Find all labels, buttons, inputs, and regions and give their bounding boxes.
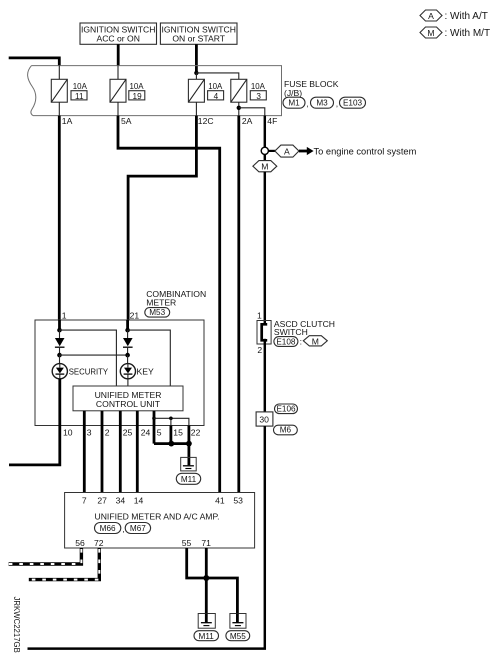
svg-text:4F: 4F — [267, 116, 277, 126]
junction dot: 2A/4F split — [237, 106, 241, 110]
connector M1 — [283, 97, 309, 108]
svg-text:M66: M66 — [100, 524, 116, 533]
wire: terminal 2A to unified meter amp pin 53 — [237, 116, 240, 493]
security indicator LED — [52, 355, 109, 379]
wire: pin 15 below meter — [169, 426, 172, 444]
diode (key branch) — [123, 330, 133, 355]
svg-text:ON or START: ON or START — [172, 34, 225, 44]
wire: amp pin 71 to ground M11 — [205, 548, 208, 614]
wire: amp pin 55 to ground junction — [187, 548, 207, 578]
wire: pin 1 into meter — [58, 320, 61, 330]
svg-text:M: M — [312, 336, 319, 346]
branch hexagon A : to engine control system — [268, 145, 416, 157]
connector M66 — [95, 523, 125, 534]
meter pin labels 10 3 2 25 24 5 15 22 — [63, 428, 201, 438]
svg-text:E103: E103 — [343, 99, 363, 108]
svg-text:1A: 1A — [62, 116, 73, 126]
svg-text:27: 27 — [97, 496, 107, 506]
svg-text:E108: E108 — [276, 337, 296, 346]
wire: amp pin 56 shielded line to left — [9, 548, 82, 564]
wire: battery feed top-left to fuse 1A — [9, 58, 60, 66]
svg-text:25: 25 — [123, 428, 133, 438]
junction circle on 4F wire — [261, 147, 268, 154]
FUSE BLOCK (J/B) label — [284, 79, 339, 98]
svg-text:METER: METER — [146, 297, 176, 307]
svg-text:19: 19 — [133, 92, 143, 101]
svg-text:SECURITY: SECURITY — [69, 367, 109, 376]
svg-text:21: 21 — [130, 310, 140, 320]
svg-text:3: 3 — [256, 92, 261, 101]
wire: pin 10 to left page edge — [9, 426, 60, 465]
svg-text:34: 34 — [116, 496, 126, 506]
unified meter and A/C amp box — [65, 493, 255, 549]
svg-text:KEY: KEY — [137, 366, 154, 376]
connector E103 — [340, 97, 366, 108]
svg-text:15: 15 — [173, 428, 183, 438]
svg-text:A: A — [284, 147, 290, 157]
wire: ignition switch ON/START feed into fuse block — [195, 44, 198, 73]
svg-text:3: 3 — [87, 428, 92, 438]
legend hexagon M : With M/T — [420, 27, 490, 39]
svg-text:71: 71 — [201, 538, 211, 548]
svg-text:11: 11 — [75, 92, 84, 101]
wire: control unit to pin 25 — [119, 411, 122, 426]
svg-text:: With M/T: : With M/T — [445, 28, 490, 39]
svg-text:1: 1 — [257, 310, 262, 320]
svg-text:ACC or ON: ACC or ON — [96, 34, 139, 44]
wire: connector 30 down and across page bottom — [28, 426, 265, 648]
junction dot pin 15 branch — [169, 417, 173, 421]
wire: pin 15 down — [170, 418, 172, 425]
wire: branch to ground M55 — [206, 578, 237, 614]
ground symbol (M55) — [230, 614, 246, 629]
ignition switch ON or START label box — [160, 23, 237, 44]
svg-text:4: 4 — [214, 92, 219, 101]
ground symbol (M11) — [198, 614, 215, 629]
svg-text:10A: 10A — [251, 82, 266, 91]
junction dot ground bus 1 — [168, 441, 174, 447]
svg-text:M11: M11 — [181, 475, 197, 484]
wire: link security/key branches — [60, 354, 128, 356]
svg-text:SWITCH: SWITCH — [274, 327, 308, 337]
svg-text:56: 56 — [75, 538, 85, 548]
wire: joined ground bus 5/15/22 — [154, 442, 189, 445]
unified meter control unit box — [73, 386, 183, 411]
svg-text:22: 22 — [191, 428, 201, 438]
svg-text:M55: M55 — [230, 632, 246, 641]
junction dot pin 5 branch — [152, 417, 156, 421]
wire: control unit to pin 24 — [136, 411, 139, 426]
connector M55 (bottom ground) — [226, 631, 250, 641]
wire: ground branch across pins 5/15/22 — [154, 418, 189, 425]
legend hexagon A : With A/T — [420, 10, 488, 22]
wire: terminal 4F down to junction — [264, 116, 266, 148]
svg-text:55: 55 — [182, 538, 192, 548]
wire: pin 21 into meter — [126, 320, 129, 330]
svg-text:To engine control system: To engine control system — [314, 147, 417, 157]
connector M67 — [125, 523, 150, 534]
svg-text:M1: M1 — [288, 99, 300, 108]
fuse F19 10A (5A) — [110, 66, 145, 116]
connector M53 — [145, 308, 170, 318]
fuse F3 10A (2A/4F) — [231, 79, 266, 115]
svg-text:M67: M67 — [130, 524, 146, 533]
svg-text:1: 1 — [62, 310, 67, 320]
wire: M hexagon down to ASCD clutch switch — [264, 172, 266, 321]
svg-text:M3: M3 — [316, 99, 328, 108]
wire: meter pin 3 to amp pin 7 — [83, 426, 86, 493]
wire: key LED to unified meter control unit — [127, 379, 129, 386]
svg-text:M: M — [427, 28, 434, 38]
svg-text:UNIFIED METER AND A/C AMP.: UNIFIED METER AND A/C AMP. — [95, 511, 220, 521]
wire: terminal 12C to combination meter pin 21 — [128, 116, 196, 320]
svg-text:2: 2 — [105, 428, 110, 438]
svg-text:24: 24 — [141, 428, 151, 438]
ASCD clutch switch E108 — [257, 310, 335, 354]
svg-text:5A: 5A — [121, 116, 132, 126]
svg-text:10: 10 — [63, 428, 73, 438]
svg-text:14: 14 — [134, 496, 144, 506]
junction dot above key LED — [125, 353, 130, 358]
diode (security branch) — [55, 330, 65, 355]
wire: control unit to pin 3 — [83, 411, 86, 426]
wire: pin 21 branch to control unit — [128, 330, 171, 386]
junction dot ground bus 2 — [186, 441, 192, 447]
svg-text::: : — [300, 337, 302, 347]
svg-text:2A: 2A — [242, 116, 253, 126]
wire: branch to terminal 4F — [239, 108, 265, 116]
svg-text:,: , — [336, 99, 338, 109]
svg-text:JRKWC2217GB: JRKWC2217GB — [12, 597, 21, 653]
svg-text:: With A/T: : With A/T — [445, 11, 488, 22]
svg-text:41: 41 — [215, 496, 225, 506]
svg-text:M6: M6 — [280, 426, 292, 435]
connector M3 — [311, 97, 339, 108]
wire: ground bus to ground M11 — [187, 444, 190, 466]
svg-text:2: 2 — [257, 345, 262, 355]
wire: meter pin 2 to amp pin 27 — [101, 426, 104, 493]
wire: security LED to pin 10 — [58, 379, 61, 426]
ground symbol (meter) — [181, 457, 197, 471]
svg-text:5: 5 — [157, 428, 162, 438]
combination meter box M53 — [35, 320, 204, 426]
combination meter label — [146, 289, 206, 307]
wire: meter pin 24 to amp pin 14 — [136, 426, 139, 493]
svg-text:M53: M53 — [149, 308, 165, 317]
svg-text:,: , — [306, 99, 308, 109]
fuse F4 10A (12C) — [188, 73, 223, 116]
connector M11 (meter ground) — [176, 473, 200, 484]
junction dot ground junction — [203, 575, 209, 581]
wire: ignition switch ACC/ON feed to fuse block — [117, 44, 120, 66]
svg-text:7: 7 — [82, 496, 87, 506]
connector M11 (bottom ground) — [194, 631, 219, 641]
svg-text:M11: M11 — [199, 632, 215, 641]
wire: amp pin 72 shielded line to left — [29, 548, 100, 580]
svg-text:53: 53 — [233, 496, 243, 506]
svg-text:72: 72 — [94, 538, 104, 548]
junction dot below pin 21 — [125, 328, 130, 333]
wire: control unit to pin 2 — [101, 411, 104, 426]
ignition switch ACC or ON label box — [80, 23, 157, 44]
wire: pin 22 below meter — [187, 426, 190, 444]
svg-text:M: M — [261, 162, 268, 172]
svg-text:12C: 12C — [198, 116, 214, 126]
wire: control unit to pin 5 — [153, 411, 156, 444]
wire: branch to fuse F3 — [196, 73, 238, 79]
wire: ASCD switch to connector 30 — [264, 344, 266, 412]
connector 30 pass-through E106/M6 — [256, 404, 297, 435]
svg-text:10A: 10A — [130, 82, 145, 91]
wire: pin 1 branch to control unit — [60, 330, 117, 386]
hexagon M on 4F wire (with M/T) — [253, 154, 277, 172]
svg-text:,: , — [122, 524, 124, 534]
junction dot below pin 1 — [57, 328, 62, 333]
svg-text:E106: E106 — [276, 405, 296, 414]
svg-text:30: 30 — [259, 414, 269, 424]
fuse F11 10A (1A) — [51, 66, 87, 116]
wire: terminal 5A to unified meter amp pin 41 — [118, 116, 220, 493]
svg-text:CONTROL UNIT: CONTROL UNIT — [96, 399, 161, 409]
svg-text:A: A — [428, 11, 434, 21]
wire: meter pin 25 to amp pin 34 — [119, 426, 122, 493]
svg-text:10A: 10A — [208, 82, 223, 91]
svg-text:10A: 10A — [73, 82, 88, 91]
junction dot above security LED — [57, 353, 62, 358]
wire: terminal 1A to combination meter pin 1 — [58, 116, 61, 320]
key indicator LED — [120, 355, 154, 379]
junction dot: ON/START feed split — [194, 71, 198, 75]
fuse block (J/B) outline — [28, 66, 282, 116]
